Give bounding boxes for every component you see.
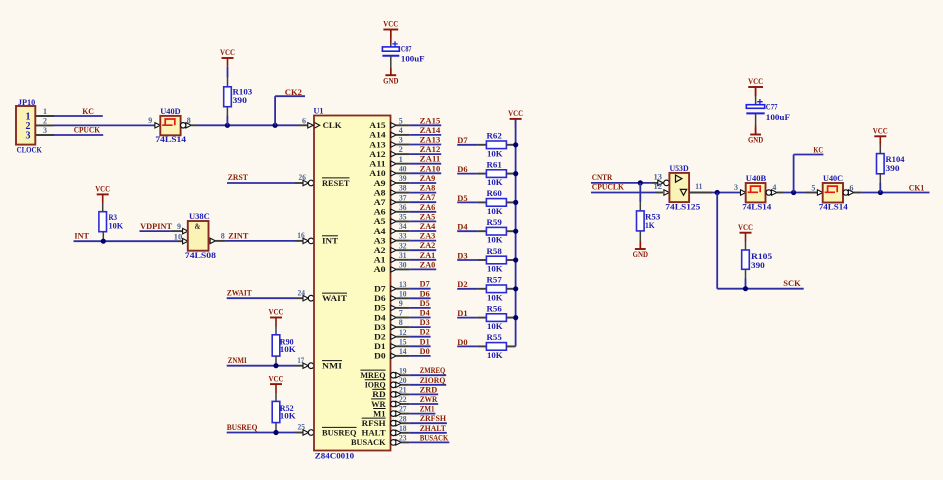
net label ZWAIT bbox=[227, 288, 253, 297]
junction R52/BUSREQ bbox=[273, 430, 278, 435]
U1 pin INT bubble and pin number 16 bbox=[297, 231, 314, 244]
svg-text:ZA0: ZA0 bbox=[420, 260, 436, 269]
svg-text:A4: A4 bbox=[374, 226, 387, 236]
svg-text:10K: 10K bbox=[109, 222, 124, 231]
svg-text:A10: A10 bbox=[369, 168, 385, 178]
svg-text:A9: A9 bbox=[374, 178, 386, 188]
resistor R105 390 bbox=[742, 241, 773, 289]
svg-text:VDPINT: VDPINT bbox=[140, 222, 172, 231]
svg-text:ZWAIT: ZWAIT bbox=[227, 288, 253, 297]
svg-text:R104: R104 bbox=[886, 155, 905, 164]
svg-text:D7: D7 bbox=[374, 284, 386, 294]
svg-text:17: 17 bbox=[297, 356, 304, 365]
svg-text:8: 8 bbox=[187, 116, 191, 125]
svg-text:3: 3 bbox=[734, 183, 738, 192]
resistor R60 10K net D5 bbox=[457, 189, 515, 216]
svg-text:9: 9 bbox=[177, 222, 181, 231]
resistor R90 10K bbox=[272, 326, 296, 366]
inverter U40D 74LS14 bbox=[148, 107, 191, 144]
svg-text:D1: D1 bbox=[457, 309, 467, 318]
inverter U40B 74LS14 bbox=[734, 174, 777, 212]
U1 pin A10 (40) net ZA10 bbox=[369, 164, 441, 178]
svg-text:6: 6 bbox=[850, 183, 854, 192]
svg-text:D4: D4 bbox=[420, 309, 430, 318]
svg-text:ZRST: ZRST bbox=[228, 173, 249, 182]
svg-text:VCC: VCC bbox=[383, 20, 398, 29]
junction R103 bbox=[225, 123, 230, 128]
svg-text:34: 34 bbox=[399, 222, 407, 231]
svg-text:33: 33 bbox=[399, 232, 407, 241]
svg-text:ZA15: ZA15 bbox=[420, 116, 441, 125]
svg-text:ZA7: ZA7 bbox=[420, 193, 436, 202]
svg-text:10K: 10K bbox=[487, 322, 503, 331]
junction R60 to bus bbox=[513, 200, 518, 205]
junction R105/SCK bbox=[743, 286, 748, 291]
junction R61 to bus bbox=[513, 171, 518, 176]
svg-text:R56: R56 bbox=[487, 304, 502, 313]
power VCC for R3 bbox=[95, 185, 110, 204]
U1 pin RESET (26) bbox=[322, 178, 350, 188]
U1 pin D7 (13) net D7 bbox=[374, 280, 431, 294]
net label CK1 bbox=[909, 184, 925, 193]
wire U40D output to U1 CLK bbox=[191, 124, 298, 126]
svg-text:BUSREQ: BUSREQ bbox=[322, 427, 357, 437]
svg-text:ZA10: ZA10 bbox=[420, 164, 441, 173]
svg-text:31: 31 bbox=[399, 251, 407, 260]
CPU U1 Z84C0010 bbox=[314, 106, 391, 460]
net label KC (right) bbox=[813, 146, 823, 155]
U1 pin A9 (39) net ZA9 bbox=[374, 174, 437, 188]
resistor R55 10K net D0 bbox=[457, 333, 515, 360]
wire VCC to R103 bbox=[227, 67, 229, 77]
U1 pin A0 (30) net ZA0 bbox=[374, 260, 437, 274]
U1 pin A3 (33) net ZA3 bbox=[374, 232, 437, 246]
svg-text:74LS14: 74LS14 bbox=[742, 202, 771, 211]
svg-text:GND: GND bbox=[383, 76, 398, 85]
svg-text:C87: C87 bbox=[401, 44, 412, 53]
svg-text:D1: D1 bbox=[374, 341, 386, 351]
svg-text:40: 40 bbox=[399, 164, 407, 173]
svg-text:R60: R60 bbox=[487, 189, 502, 198]
svg-text:12: 12 bbox=[654, 182, 663, 191]
svg-text:ZINT: ZINT bbox=[228, 231, 249, 240]
wire ZRST to U1 RESET bbox=[227, 182, 304, 184]
tri-state buffer U53D 74LS125 bbox=[654, 164, 712, 211]
net label INT bbox=[74, 232, 89, 241]
svg-text:37: 37 bbox=[399, 193, 407, 202]
svg-text:ZHALT: ZHALT bbox=[420, 424, 447, 433]
svg-text:A0: A0 bbox=[374, 264, 386, 274]
svg-text:A15: A15 bbox=[369, 120, 385, 130]
svg-text:VCC: VCC bbox=[508, 109, 523, 118]
svg-text:1: 1 bbox=[399, 155, 403, 164]
svg-text:R55: R55 bbox=[487, 333, 502, 342]
wire CPUCK bbox=[54, 134, 103, 136]
svg-text:D4: D4 bbox=[457, 223, 467, 232]
svg-text:4: 4 bbox=[399, 126, 403, 135]
svg-text:13: 13 bbox=[654, 173, 663, 182]
svg-text:D3: D3 bbox=[457, 251, 467, 260]
power VCC for R104 bbox=[873, 127, 888, 146]
svg-text:74LS14: 74LS14 bbox=[155, 135, 186, 144]
junction R90/ZNMI bbox=[273, 363, 278, 368]
power VCC for R103 bbox=[220, 48, 235, 67]
svg-text:VCC: VCC bbox=[873, 127, 888, 136]
svg-text:100uF: 100uF bbox=[401, 54, 425, 63]
svg-text:ZA12: ZA12 bbox=[420, 145, 441, 154]
U1 pin A11 (1) net ZA11 bbox=[369, 155, 441, 169]
svg-text:ZMREQ: ZMREQ bbox=[420, 366, 446, 375]
svg-text:R59: R59 bbox=[487, 218, 502, 227]
svg-text:20: 20 bbox=[399, 376, 407, 385]
U1 pin A13 (3) net ZA13 bbox=[369, 136, 441, 150]
svg-text:35: 35 bbox=[399, 213, 407, 222]
resistor R56 10K net D1 bbox=[457, 304, 515, 331]
wire KC bbox=[54, 115, 103, 117]
svg-text:D2: D2 bbox=[374, 332, 386, 342]
svg-text:R105: R105 bbox=[751, 252, 772, 261]
svg-text:10K: 10K bbox=[487, 149, 503, 158]
svg-text:BUSACK: BUSACK bbox=[420, 433, 449, 442]
svg-text:RESET: RESET bbox=[322, 178, 350, 188]
U1 pin A8 (38) net ZA8 bbox=[374, 184, 437, 198]
svg-text:A12: A12 bbox=[369, 149, 385, 159]
capacitor C77 100uF bbox=[746, 77, 790, 145]
U1 pin D3 (8) net D3 bbox=[374, 318, 431, 332]
svg-text:390: 390 bbox=[233, 96, 247, 105]
wire U53D output bbox=[712, 192, 741, 194]
svg-text:ZIORQ: ZIORQ bbox=[420, 376, 446, 385]
svg-text:D0: D0 bbox=[374, 351, 386, 361]
junction R56 to bus bbox=[513, 315, 518, 320]
svg-text:INT: INT bbox=[74, 232, 89, 241]
svg-text:SCK: SCK bbox=[783, 279, 801, 288]
svg-text:CK1: CK1 bbox=[909, 184, 925, 193]
svg-text:U38C: U38C bbox=[189, 212, 210, 221]
U1 pin D0 (14) net D0 bbox=[374, 347, 431, 361]
junction R58 to bus bbox=[513, 257, 518, 262]
svg-text:D2: D2 bbox=[420, 328, 430, 337]
junction R62 to bus bbox=[513, 142, 518, 147]
svg-text:A2: A2 bbox=[374, 245, 386, 255]
U1 pin WR (22) net ZWR bbox=[371, 395, 438, 409]
svg-text:3: 3 bbox=[43, 126, 47, 135]
U1 pin RD (21) net ZRD bbox=[372, 385, 438, 399]
svg-text:390: 390 bbox=[751, 261, 765, 270]
svg-text:HALT: HALT bbox=[362, 428, 386, 438]
connector JP10 bbox=[16, 98, 42, 155]
svg-text:D3: D3 bbox=[420, 318, 430, 327]
svg-text:CNTR: CNTR bbox=[592, 173, 613, 182]
svg-text:A14: A14 bbox=[369, 130, 386, 140]
U1 pin MREQ (19) net ZMREQ bbox=[360, 366, 446, 380]
svg-text:INT: INT bbox=[322, 236, 338, 246]
wire CNTR to U53D pin 13 bbox=[591, 182, 658, 184]
capacitor C87 100uF bbox=[382, 20, 424, 86]
svg-text:3: 3 bbox=[399, 136, 403, 145]
svg-text:74LS14: 74LS14 bbox=[819, 203, 848, 212]
U1 pin D1 (15) net D1 bbox=[374, 337, 431, 351]
svg-text:D6: D6 bbox=[457, 165, 467, 174]
svg-text:28: 28 bbox=[399, 414, 407, 423]
svg-text:GND: GND bbox=[748, 136, 763, 145]
svg-text:10K: 10K bbox=[280, 345, 297, 354]
svg-text:CLOCK: CLOCK bbox=[17, 146, 43, 155]
resistor R61 10K net D6 bbox=[457, 160, 515, 187]
svg-text:16: 16 bbox=[297, 231, 304, 240]
U1 pin A12 (2) net ZA12 bbox=[369, 145, 441, 159]
svg-text:R61: R61 bbox=[487, 160, 502, 169]
svg-text:14: 14 bbox=[399, 347, 407, 356]
resistor R52 10K bbox=[272, 393, 296, 433]
resistor R57 10K net D2 bbox=[457, 276, 515, 303]
power VCC for R105 bbox=[738, 223, 753, 242]
svg-text:30: 30 bbox=[399, 261, 407, 270]
U1 pin A2 (32) net ZA2 bbox=[374, 241, 437, 255]
svg-text:D7: D7 bbox=[457, 136, 467, 145]
net label ZRST bbox=[228, 173, 249, 182]
svg-text:1K: 1K bbox=[645, 221, 655, 230]
resistor R3 10K bbox=[99, 203, 124, 241]
U1 pin M1 (27) net ZM1 bbox=[373, 405, 435, 419]
svg-text:D2: D2 bbox=[457, 280, 467, 289]
svg-text:10K: 10K bbox=[487, 236, 503, 245]
svg-text:U40D: U40D bbox=[160, 107, 180, 116]
svg-text:U1: U1 bbox=[314, 106, 324, 115]
svg-text:GND: GND bbox=[633, 250, 648, 259]
U1 pin D6 (10) net D6 bbox=[374, 289, 431, 303]
svg-text:A11: A11 bbox=[369, 159, 385, 169]
wire INT to U38C pin 10 bbox=[74, 240, 183, 242]
svg-text:5: 5 bbox=[811, 183, 815, 192]
svg-text:ZA6: ZA6 bbox=[420, 203, 436, 212]
svg-text:ZA8: ZA8 bbox=[420, 184, 436, 193]
U1 pin NMI (17) bbox=[322, 361, 343, 371]
svg-text:D6: D6 bbox=[420, 289, 430, 298]
wire U40C output to CK1 bbox=[854, 192, 930, 194]
svg-text:WAIT: WAIT bbox=[322, 293, 347, 303]
svg-text:74LS125: 74LS125 bbox=[665, 202, 700, 211]
svg-text:D1: D1 bbox=[420, 337, 430, 346]
resistor R53 1K bbox=[637, 183, 661, 249]
svg-text:VCC: VCC bbox=[748, 77, 763, 86]
svg-text:D3: D3 bbox=[374, 322, 386, 332]
U1 pin A1 (31) net ZA1 bbox=[374, 251, 437, 265]
svg-text:C77: C77 bbox=[766, 102, 778, 111]
U1 pin D2 (12) net D2 bbox=[374, 328, 431, 342]
svg-text:ZA5: ZA5 bbox=[420, 212, 436, 221]
svg-text:ZA3: ZA3 bbox=[420, 232, 436, 241]
svg-text:M1: M1 bbox=[373, 408, 385, 418]
svg-text:A7: A7 bbox=[374, 197, 387, 207]
U1 pin NMI bubble and pin number 17 bbox=[297, 356, 314, 369]
net label CPUCLK bbox=[592, 183, 625, 192]
svg-text:KC: KC bbox=[82, 107, 94, 116]
svg-text:D5: D5 bbox=[420, 299, 430, 308]
svg-text:CPUCK: CPUCK bbox=[74, 126, 101, 135]
svg-text:ZA11: ZA11 bbox=[420, 155, 441, 164]
net label CK2 bbox=[285, 88, 302, 97]
svg-text:74LS08: 74LS08 bbox=[185, 251, 216, 260]
svg-text:8: 8 bbox=[221, 231, 225, 240]
svg-text:R53: R53 bbox=[645, 212, 660, 221]
and-gate U38C 74LS08 bbox=[174, 212, 226, 260]
svg-text:26: 26 bbox=[299, 173, 306, 182]
svg-text:ZA1: ZA1 bbox=[420, 251, 436, 260]
pull-up bus wire bbox=[515, 120, 517, 347]
svg-text:ZA14: ZA14 bbox=[420, 126, 441, 135]
svg-text:38: 38 bbox=[399, 184, 407, 193]
net label SCK bbox=[783, 279, 801, 288]
svg-text:CLK: CLK bbox=[323, 120, 342, 130]
svg-text:JP10: JP10 bbox=[18, 98, 35, 107]
svg-text:18: 18 bbox=[399, 424, 407, 433]
svg-text:U40B: U40B bbox=[746, 174, 767, 183]
svg-text:BUSREQ: BUSREQ bbox=[227, 423, 258, 432]
U1 pin A7 (37) net ZA7 bbox=[374, 193, 437, 207]
svg-text:VCC: VCC bbox=[95, 185, 110, 194]
wire ZINT to U1 INT bbox=[225, 240, 303, 242]
svg-text:WR: WR bbox=[371, 399, 386, 409]
resistor R58 10K net D3 bbox=[457, 247, 515, 274]
svg-text:390: 390 bbox=[886, 164, 900, 173]
svg-text:23: 23 bbox=[399, 434, 407, 443]
svg-text:2: 2 bbox=[43, 117, 47, 126]
svg-text:CPUCLK: CPUCLK bbox=[592, 183, 625, 192]
svg-text:U53D: U53D bbox=[670, 164, 689, 173]
ground GND for R53 bbox=[633, 242, 648, 259]
svg-text:ZA13: ZA13 bbox=[420, 136, 441, 145]
wire KC drop bbox=[794, 155, 824, 193]
svg-text:25: 25 bbox=[297, 423, 305, 432]
junction R3/INT bbox=[101, 239, 106, 244]
svg-text:KC: KC bbox=[813, 146, 823, 155]
svg-text:19: 19 bbox=[399, 366, 407, 375]
svg-text:2: 2 bbox=[399, 145, 403, 154]
svg-text:21: 21 bbox=[399, 386, 407, 395]
net label ZNMI bbox=[228, 356, 247, 365]
junction CNTR/R53 bbox=[638, 180, 643, 185]
resistor R104 390 bbox=[877, 145, 905, 193]
svg-text:10K: 10K bbox=[487, 293, 503, 302]
power VCC for R52 bbox=[269, 374, 284, 393]
net label ZINT bbox=[228, 231, 249, 240]
svg-text:VCC: VCC bbox=[220, 48, 235, 57]
U1 pin A14 (4) net ZA14 bbox=[369, 126, 441, 140]
svg-text:ZA4: ZA4 bbox=[420, 222, 436, 231]
junction KC drop bbox=[791, 190, 796, 195]
power VCC for R90 bbox=[269, 308, 284, 327]
wire JP10 pin2 to U40D input bbox=[54, 124, 155, 126]
svg-text:32: 32 bbox=[399, 241, 407, 250]
svg-text:A8: A8 bbox=[374, 187, 386, 197]
svg-text:ZRD: ZRD bbox=[420, 385, 438, 394]
svg-text:VCC: VCC bbox=[269, 308, 284, 317]
svg-text:ZNMI: ZNMI bbox=[228, 356, 247, 365]
U1 pin INT (16) bbox=[322, 236, 338, 246]
svg-text:ZWR: ZWR bbox=[420, 395, 438, 404]
svg-text:A13: A13 bbox=[369, 139, 385, 149]
inverter U40C 74LS14 bbox=[811, 174, 853, 212]
svg-text:RD: RD bbox=[372, 389, 385, 399]
svg-text:BUSACK: BUSACK bbox=[351, 437, 386, 447]
svg-text:RFSH: RFSH bbox=[362, 418, 386, 428]
svg-text:D7: D7 bbox=[420, 280, 430, 289]
svg-text:7: 7 bbox=[399, 309, 403, 318]
U1 pin BUSREQ (25) bbox=[322, 427, 357, 437]
wire U40B output to U40C input bbox=[777, 192, 817, 194]
net label CNTR bbox=[592, 173, 613, 182]
U1 pin RFSH (28) net ZRFSH bbox=[362, 414, 447, 428]
junction R59 to bus bbox=[513, 229, 518, 234]
svg-text:10: 10 bbox=[174, 232, 183, 241]
U1 pin A4 (34) net ZA4 bbox=[374, 222, 437, 236]
svg-text:R57: R57 bbox=[487, 276, 502, 285]
U1 pin A6 (36) net ZA6 bbox=[374, 203, 437, 217]
U1 pin BUSACK (23) net BUSACK bbox=[351, 433, 449, 447]
net label VDPINT bbox=[140, 222, 172, 231]
svg-text:NMI: NMI bbox=[322, 361, 343, 371]
svg-text:D5: D5 bbox=[374, 303, 386, 313]
junction R57 to bus bbox=[513, 286, 518, 291]
svg-text:10: 10 bbox=[399, 289, 407, 298]
U1 pin IORQ (20) net ZIORQ bbox=[365, 376, 447, 390]
svg-text:A3: A3 bbox=[374, 235, 386, 245]
svg-text:A6: A6 bbox=[374, 207, 386, 217]
svg-text:10K: 10K bbox=[487, 265, 503, 274]
U1 pin CLK (6) bbox=[299, 116, 342, 130]
U1 pin D5 (9) net D5 bbox=[374, 299, 431, 313]
svg-text:D5: D5 bbox=[457, 194, 467, 203]
JP10 pin 3 bbox=[35, 126, 54, 135]
svg-text:ZA2: ZA2 bbox=[420, 241, 436, 250]
wire ZWAIT to U1 WAIT bbox=[227, 297, 304, 299]
JP10 pin 2 bbox=[35, 117, 54, 126]
U1 pin A15 (5) net ZA15 bbox=[369, 116, 441, 130]
svg-text:1: 1 bbox=[43, 107, 47, 116]
svg-text:13: 13 bbox=[399, 280, 407, 289]
svg-text:24: 24 bbox=[297, 288, 305, 297]
svg-text:9: 9 bbox=[148, 116, 152, 125]
svg-text:3: 3 bbox=[26, 131, 31, 142]
svg-text:D0: D0 bbox=[457, 338, 467, 347]
JP10 pin 1 bbox=[35, 107, 54, 116]
svg-text:VCC: VCC bbox=[738, 223, 753, 232]
resistor R62 10K net D7 bbox=[457, 132, 515, 159]
resistor R103 390 bbox=[224, 77, 253, 125]
U1 pin D4 (7) net D4 bbox=[374, 309, 431, 323]
svg-text:10K: 10K bbox=[487, 178, 503, 187]
junction R104/CK1 bbox=[878, 190, 883, 195]
wire CK2 bbox=[275, 96, 305, 125]
U1 pin WAIT (24) bbox=[322, 293, 347, 303]
svg-text:MREQ: MREQ bbox=[360, 370, 386, 380]
junction U53D output / SCK drop bbox=[715, 190, 720, 195]
svg-text:VCC: VCC bbox=[269, 374, 284, 383]
power VCC for pull-up array bbox=[508, 109, 523, 128]
U1 pin BUSREQ bubble and pin number 25 bbox=[297, 423, 313, 436]
U1 pin WAIT bubble and pin number 24 bbox=[297, 288, 313, 301]
svg-text:100uF: 100uF bbox=[766, 113, 790, 122]
junction CK2 bbox=[273, 123, 278, 128]
svg-text:27: 27 bbox=[399, 405, 407, 414]
svg-text:10K: 10K bbox=[487, 207, 503, 216]
wire VDPINT to U38C pin 9 bbox=[140, 230, 183, 232]
svg-text:36: 36 bbox=[399, 203, 407, 212]
net label CPUCK bbox=[74, 126, 101, 135]
svg-text:&: & bbox=[195, 221, 201, 231]
svg-text:12: 12 bbox=[399, 328, 407, 337]
